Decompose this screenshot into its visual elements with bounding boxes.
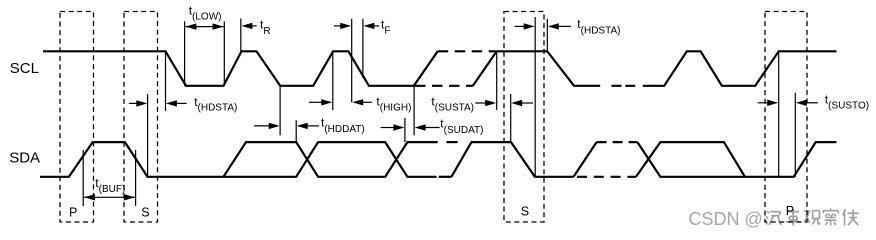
svg-text:P: P — [69, 206, 77, 220]
arrow t(HDSTA)2 right — [548, 23, 571, 29]
svg-text:S: S — [141, 206, 149, 220]
svg-text:CSDN @: CSDN @ — [689, 209, 763, 229]
arrow t(SUDAT) left — [381, 124, 405, 130]
SCL low dashes (break) — [612, 85, 636, 87]
SDA rise into repeated start — [451, 142, 573, 177]
arrow t(HDSTA)2 left — [515, 23, 535, 29]
arrow t(HIGH) right — [352, 99, 372, 105]
svg-text:S: S — [521, 205, 529, 219]
SDA eye 2 fall then low to stop rise — [637, 142, 836, 177]
SCL waveform main solid trace — [43, 51, 438, 86]
arrow t_F right — [363, 23, 379, 29]
dashed box P2 (stop condition, right) — [765, 12, 807, 223]
arrow t(SUSTA) right — [511, 100, 533, 106]
SCL dashed high segment (envelope) — [438, 50, 497, 52]
SDA eye 2 dashed high — [597, 141, 638, 143]
annotation line SCL fall start (start 2) — [546, 19, 548, 52]
annotation line t(BUF) left — [82, 150, 84, 206]
annotation line t_F right — [362, 19, 364, 78]
watermark glyph CHE — [786, 209, 801, 225]
arrow t(SUSTA) left — [475, 100, 496, 106]
arrow t(SUSTO) right — [796, 100, 818, 106]
svg-text:P: P — [786, 204, 794, 218]
arrow t(HDDAT) right — [297, 123, 319, 129]
arrow t(SUDAT) right — [415, 124, 440, 130]
annotation line t(HIGH) left — [332, 51, 334, 110]
SDA upper branch eye 1 — [223, 142, 437, 177]
annotation line SCL fall start (start 1) — [165, 51, 167, 111]
watermark glyph XIA — [843, 209, 859, 225]
annotation line t(SUDAT) right — [413, 86, 415, 136]
arrow t(HDSTA)1 right — [166, 100, 187, 106]
annotation line t(HDDAT) left — [279, 87, 281, 136]
watermark glyph QI — [766, 211, 782, 225]
annotation line SDA fall (start 2) — [534, 17, 536, 177]
SDA low dash — [439, 176, 452, 178]
dashed box S1 (start condition, left) — [124, 12, 158, 223]
svg-text:SCL: SCL — [10, 60, 39, 77]
SCL right solid trace — [643, 51, 837, 86]
SCL dashed low segment (envelope) — [415, 85, 473, 87]
arrow t(HDDAT) left — [254, 123, 280, 129]
annotation line t(SUSTA) right — [510, 94, 512, 142]
annotation line t(LOW) right — [223, 21, 225, 86]
SDA eye 2 dashed low — [577, 176, 636, 178]
annotation line t(HDDAT) right — [295, 120, 297, 142]
watermark glyph CHA — [823, 209, 838, 226]
arrow t(LOW) double — [185, 23, 223, 29]
svg-text:SDA: SDA — [9, 150, 40, 167]
SCL solid rise to repeated start — [473, 51, 600, 86]
annotation line t(SUSTO) left — [778, 51, 780, 177]
dashed box P1 (stop condition, left) — [60, 12, 94, 223]
SDA high dash — [447, 141, 458, 143]
annotation line t(SUSTO) right — [794, 93, 796, 177]
arrow t(HIGH) left — [309, 99, 332, 105]
annotation line t_R — [240, 18, 242, 51]
dashed box S2 (repeated start, middle) — [504, 12, 544, 223]
arrow t(BUF) double — [84, 194, 135, 200]
SDA eye 2 bottom rise and high to close — [636, 142, 745, 177]
arrow t_F left — [334, 23, 351, 29]
SDA waveform lower branch solid — [40, 142, 437, 177]
annotation line t(SUDAT) left — [404, 118, 406, 142]
arrow t(SUSTO) left — [758, 100, 779, 106]
arrow t(HDSTA)1 left — [129, 100, 147, 106]
annotation line t(HIGH) right / t_F left — [351, 19, 353, 103]
annotation line SDA fall end (start 1) — [147, 94, 149, 177]
annotation line t(SUSTA) left — [496, 51, 498, 110]
SDA eye 2 top rise — [574, 142, 597, 177]
arrow t_R — [241, 23, 256, 29]
annotation line t(LOW) left — [184, 21, 186, 86]
annotation line t(BUF) right — [135, 150, 137, 206]
watermark glyph GUAN — [804, 211, 820, 225]
